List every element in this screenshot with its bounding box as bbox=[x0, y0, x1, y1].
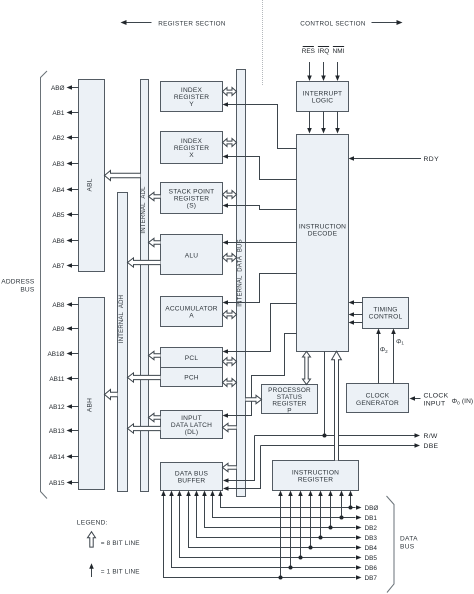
svg-text:ABH: ABH bbox=[87, 398, 94, 412]
svg-text:DBØ: DBØ bbox=[365, 505, 379, 512]
svg-text:PCH: PCH bbox=[184, 375, 199, 382]
svg-text:R/W: R/W bbox=[424, 433, 438, 440]
svg-text:DECODE: DECODE bbox=[308, 231, 338, 238]
svg-text:DB2: DB2 bbox=[365, 525, 378, 532]
svg-text:DB6: DB6 bbox=[365, 565, 378, 572]
svg-text:REGISTER: REGISTER bbox=[174, 94, 209, 101]
svg-text:DB7: DB7 bbox=[365, 575, 378, 582]
svg-text:GENERATOR: GENERATOR bbox=[356, 400, 399, 407]
svg-text:REGISTER: REGISTER bbox=[174, 145, 209, 152]
svg-text:AB3: AB3 bbox=[52, 161, 65, 168]
svg-text:RDY: RDY bbox=[424, 156, 440, 163]
svg-text:ADDRESS: ADDRESS bbox=[1, 279, 35, 286]
svg-text:AB9: AB9 bbox=[52, 326, 65, 333]
svg-text:INTERRUPT: INTERRUPT bbox=[303, 91, 343, 98]
svg-text:REGISTER: REGISTER bbox=[298, 476, 333, 483]
svg-text:INSTRUCTION: INSTRUCTION bbox=[292, 469, 339, 476]
svg-text:INTERNAL DATA BUS: INTERNAL DATA BUS bbox=[238, 239, 244, 307]
svg-text:BUFFER: BUFFER bbox=[178, 477, 206, 484]
svg-text:INDEX: INDEX bbox=[181, 87, 203, 94]
svg-text:ABL: ABL bbox=[87, 178, 94, 191]
svg-text:DB4: DB4 bbox=[365, 545, 378, 552]
svg-text:(DL): (DL) bbox=[185, 429, 199, 436]
svg-text:DB3: DB3 bbox=[365, 535, 378, 542]
svg-text:ALU: ALU bbox=[185, 252, 198, 259]
svg-text:AB11: AB11 bbox=[49, 376, 65, 383]
svg-text:A: A bbox=[189, 313, 194, 320]
svg-text:INPUT: INPUT bbox=[181, 415, 202, 422]
svg-text:REGISTER SECTION: REGISTER SECTION bbox=[158, 20, 226, 27]
svg-text:CONTROL SECTION: CONTROL SECTION bbox=[300, 20, 366, 27]
svg-text:DB1: DB1 bbox=[365, 515, 378, 522]
svg-text:BUS: BUS bbox=[400, 544, 415, 551]
svg-text:STACK POINT: STACK POINT bbox=[169, 189, 215, 196]
svg-text:IRQ: IRQ bbox=[318, 48, 329, 55]
svg-text:REGISTER: REGISTER bbox=[174, 196, 209, 203]
svg-text:AB15: AB15 bbox=[49, 480, 65, 487]
svg-text:CONTROL: CONTROL bbox=[369, 314, 403, 321]
svg-text:PCL: PCL bbox=[185, 355, 199, 362]
svg-text:AB1Ø: AB1Ø bbox=[47, 351, 64, 358]
svg-text:LOGIC: LOGIC bbox=[312, 98, 334, 105]
svg-text:ACCUMULATOR: ACCUMULATOR bbox=[165, 306, 218, 313]
svg-text:DATA: DATA bbox=[400, 536, 418, 543]
svg-text:CLOCK: CLOCK bbox=[366, 392, 390, 399]
svg-text:AB12: AB12 bbox=[49, 404, 65, 411]
svg-text:= 1 BIT LINE: = 1 BIT LINE bbox=[101, 569, 140, 576]
svg-text:DB5: DB5 bbox=[365, 555, 378, 562]
svg-text:BUS: BUS bbox=[20, 287, 35, 294]
svg-text:LEGEND:: LEGEND: bbox=[77, 520, 108, 527]
svg-text:AB4: AB4 bbox=[52, 187, 65, 194]
svg-text:CLOCK: CLOCK bbox=[424, 393, 449, 400]
svg-text:INTERNAL ADH: INTERNAL ADH bbox=[119, 295, 125, 343]
svg-text:AB6: AB6 bbox=[52, 238, 65, 245]
svg-text:TIMING: TIMING bbox=[373, 307, 397, 314]
svg-text:Y: Y bbox=[189, 101, 194, 108]
svg-text:AB13: AB13 bbox=[49, 428, 65, 435]
svg-text:RES: RES bbox=[302, 48, 315, 55]
svg-text:AB7: AB7 bbox=[52, 263, 65, 270]
svg-text:INTERNAL ADL: INTERNAL ADL bbox=[141, 186, 147, 234]
svg-text:X: X bbox=[189, 152, 194, 159]
svg-text:INPUT: INPUT bbox=[424, 401, 446, 408]
svg-text:AB8: AB8 bbox=[52, 302, 65, 309]
svg-text:DATA LATCH: DATA LATCH bbox=[171, 422, 212, 429]
svg-text:= 8 BIT LINE: = 8 BIT LINE bbox=[101, 540, 140, 547]
svg-text:AB2: AB2 bbox=[52, 135, 65, 142]
svg-text:DBE: DBE bbox=[424, 443, 439, 450]
svg-text:AB14: AB14 bbox=[49, 454, 65, 461]
svg-text:P: P bbox=[287, 407, 291, 414]
svg-text:INSTRUCTION: INSTRUCTION bbox=[299, 224, 346, 231]
svg-text:AB1: AB1 bbox=[52, 110, 65, 117]
svg-text:AB5: AB5 bbox=[52, 212, 65, 219]
svg-text:NMI: NMI bbox=[333, 48, 345, 55]
svg-text:DATA BUS: DATA BUS bbox=[175, 470, 209, 477]
svg-text:ABØ: ABØ bbox=[51, 85, 65, 92]
svg-text:INDEX: INDEX bbox=[181, 138, 203, 145]
svg-text:(S): (S) bbox=[187, 203, 196, 210]
